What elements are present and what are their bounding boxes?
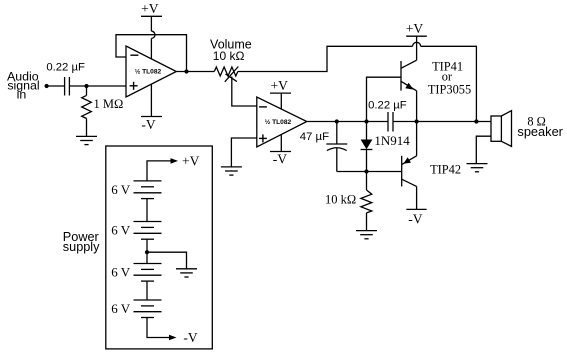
wire +V to Q1 collector — [416, 36, 418, 60]
label TIP41 or TIP3055 — [428, 60, 471, 97]
svg-text:TIP3055: TIP3055 — [428, 83, 471, 97]
power -V wire of U1 — [150, 84, 152, 116]
op-amp U1 1/2 TL082 — [126, 46, 176, 97]
U1 plus input symbol — [130, 82, 138, 90]
transistor Q2 TIP42 PNP — [401, 156, 403, 187]
svg-text:½ TL082: ½ TL082 — [135, 68, 162, 76]
svg-text:0.22 µF: 0.22 µF — [368, 99, 407, 111]
node dot center tap — [145, 250, 149, 254]
svg-text:-V: -V — [273, 152, 287, 167]
svg-text:0.22 µF: 0.22 µF — [46, 61, 85, 73]
capacitor C1 0.22 uF — [64, 77, 66, 96]
svg-text:+V: +V — [182, 153, 200, 168]
resistor R3 10 kohm — [366, 172, 368, 191]
resistor R1 1 Mohm — [86, 86, 88, 95]
node dot speaker junction — [474, 119, 478, 123]
wire feedback rail to output node — [421, 46, 477, 121]
wire bottom rail 47uF to Q2 base — [337, 171, 401, 173]
svg-text:+V: +V — [271, 78, 289, 93]
ground below R1 — [76, 136, 97, 144]
speaker SP1 — [491, 116, 501, 141]
wire C1 to op-amp U1 + input — [69, 85, 126, 87]
svg-text:-V: -V — [183, 330, 197, 345]
wire Q1 base — [367, 77, 402, 121]
wire U1 output to volume pot — [176, 71, 214, 73]
svg-text:10 kΩ: 10 kΩ — [325, 193, 356, 207]
input terminal dot — [45, 84, 49, 88]
battery B1 6V — [134, 181, 162, 199]
node dot diode/base tap — [364, 119, 368, 123]
power -V bar of U2 — [270, 151, 291, 153]
ground center tap — [176, 269, 197, 277]
wire U2 plus input to ground — [231, 138, 256, 167]
svg-text:6 V: 6 V — [111, 223, 131, 238]
wire U2 output rail — [307, 121, 388, 123]
svg-text:6 V: 6 V — [111, 265, 131, 280]
svg-text:+V: +V — [141, 1, 159, 16]
svg-text:6 V: 6 V — [111, 182, 131, 197]
svg-text:47 µF: 47 µF — [300, 131, 329, 143]
power -V bar of Q2 — [406, 208, 426, 210]
node dot 47uF tap — [335, 119, 339, 123]
node junction dot input/R1 — [84, 84, 88, 88]
label Audio signal in — [7, 70, 40, 102]
op-amp U2 1/2 TL082 — [257, 97, 307, 147]
power supply box — [106, 146, 213, 349]
diode D1 1N914 — [366, 122, 368, 140]
node dot bottom rail — [364, 169, 368, 173]
wire center tap to ground — [147, 252, 187, 269]
node output dot U1 — [184, 69, 188, 73]
U2 plus input symbol — [259, 134, 267, 142]
battery B2 6V — [134, 222, 162, 240]
svg-text:or: or — [442, 70, 453, 84]
wire feedback loop U1 — [116, 35, 187, 72]
label Power supply — [63, 230, 100, 254]
potentiometer R2 volume 10k — [214, 67, 238, 76]
wire +V to U2 — [280, 93, 282, 109]
power +V bar of Q1 — [406, 35, 427, 37]
ground below speaker — [467, 164, 488, 172]
power +V bar of U1 — [141, 15, 162, 17]
power +V bar of U2 — [270, 92, 291, 94]
wire B3 to B4 — [146, 281, 148, 300]
svg-text:1 MΩ: 1 MΩ — [94, 97, 124, 111]
wire speaker bottom terminal — [476, 136, 491, 163]
svg-text:+V: +V — [406, 21, 424, 36]
svg-text:10 kΩ: 10 kΩ — [213, 49, 245, 63]
transistor Q1 TIP41 NPN — [400, 61, 402, 91]
U1 minus input symbol — [130, 54, 138, 56]
wire B1 to B2 — [146, 199, 148, 222]
U2 minus input symbol — [259, 106, 267, 108]
wire C3 to output node — [393, 121, 491, 123]
wire +V arrow in box — [147, 161, 172, 181]
capacitor C3 0.22 uF output — [387, 112, 389, 132]
wire B2 to B3 — [146, 239, 148, 263]
capacitor C2 47 uF — [336, 122, 338, 145]
svg-text:in: in — [17, 88, 27, 102]
wire +V to U1 with hop over feedback — [150, 16, 152, 31]
ground below U2 plus input — [221, 167, 242, 175]
ground below R3 — [356, 231, 377, 239]
svg-text:1N914: 1N914 — [374, 133, 410, 148]
wire input to C1 — [47, 85, 65, 87]
battery B3 6V — [134, 264, 162, 282]
wire pot to top feedback rail — [238, 46, 413, 71]
svg-text:supply: supply — [63, 240, 100, 254]
node dot emitters junction — [415, 119, 419, 123]
svg-text:speaker: speaker — [517, 124, 563, 139]
svg-text:-V: -V — [408, 212, 422, 227]
svg-text:-V: -V — [141, 117, 155, 132]
svg-text:TIP42: TIP42 — [430, 163, 461, 177]
hop over +V wire — [413, 42, 421, 46]
wire -V arrow in box — [147, 318, 170, 338]
power -V wire of U2 — [280, 135, 282, 152]
pot wiper arrow — [225, 67, 239, 82]
power -V bar of U1 — [141, 116, 162, 118]
battery B4 6V — [134, 300, 162, 318]
svg-text:6 V: 6 V — [111, 301, 131, 316]
svg-text:½ TL082: ½ TL082 — [265, 118, 292, 126]
wire wiper to U2 minus input — [232, 77, 257, 107]
